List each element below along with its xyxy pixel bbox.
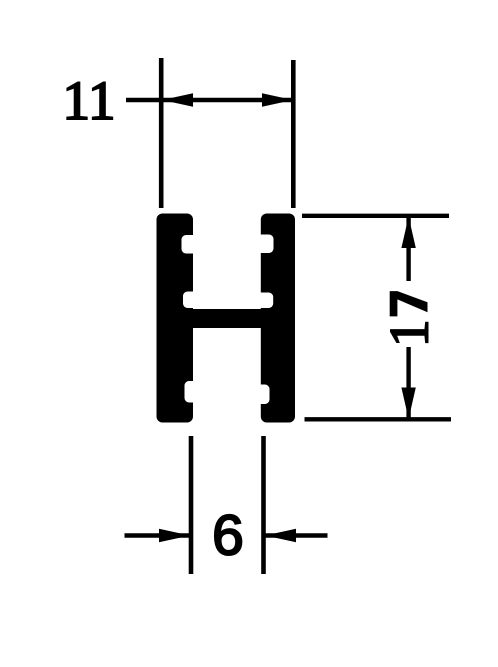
dim 17: dimension line lower segment <box>406 347 410 418</box>
dim 6: left extension line <box>189 436 194 574</box>
svg-text:1: 1 <box>379 320 440 348</box>
dim 11: left arrowhead <box>162 93 193 106</box>
right bar mid groove notch <box>255 293 273 309</box>
dim 11: left extension line <box>159 58 164 208</box>
dim 17: bottom extension line <box>305 417 452 421</box>
dim 6: left arrowhead <box>159 529 190 542</box>
dim 11: dimension line <box>126 98 293 102</box>
dim 6: right arrowhead <box>265 529 296 542</box>
dim 17: digit 7 (drawn) <box>390 291 428 316</box>
dim 11: right arrowhead <box>262 93 293 106</box>
dim 17: top extension line <box>302 214 449 218</box>
left bar upper groove notch <box>182 235 201 254</box>
svg-text:11: 11 <box>63 70 116 131</box>
left bar mid groove notch <box>183 292 201 309</box>
dim 11: right extension line <box>291 60 296 208</box>
profile body: left bar <box>157 214 194 423</box>
profile crossbar <box>179 309 275 328</box>
svg-text:6: 6 <box>212 504 244 568</box>
right bar upper groove notch <box>255 235 273 254</box>
dim 6: right leader line <box>265 533 328 537</box>
left bar lower groove notch <box>185 381 203 403</box>
dim 6: left leader line <box>125 533 191 537</box>
dim 17: dimension line upper segment <box>406 217 410 281</box>
dim 17: top arrowhead <box>401 217 415 249</box>
dim 17: bottom arrowhead <box>401 388 415 420</box>
dim 6: right extension line <box>261 436 266 574</box>
profile body: right bar <box>261 214 295 423</box>
right bar lower groove notch <box>252 385 270 405</box>
